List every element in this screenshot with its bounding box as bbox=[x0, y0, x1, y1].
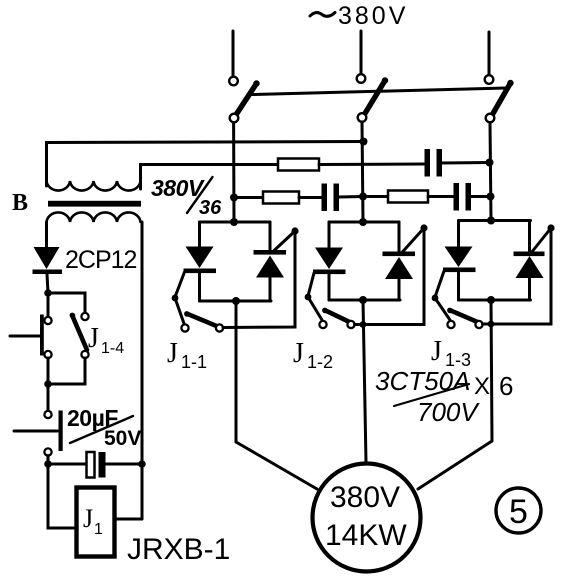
thyristor V5 (down) bbox=[443, 247, 476, 273]
contact J1-4 blade bbox=[72, 315, 87, 350]
svg-text:J: J bbox=[88, 323, 99, 354]
node merge junction bbox=[44, 380, 52, 388]
node pushbutton1 lower terminal bbox=[44, 351, 51, 358]
svg-text:5: 5 bbox=[509, 493, 528, 531]
resistor R1 bbox=[278, 159, 319, 171]
label 20uF/50V bbox=[67, 405, 141, 450]
wire row3 R2 to C2 bbox=[299, 196, 322, 199]
wire diode to branch bbox=[47, 274, 48, 293]
node pushbutton1 upper terminal bbox=[44, 317, 51, 324]
wire row3 C2 to phase2 bbox=[339, 195, 363, 199]
label J1 coil bbox=[83, 504, 103, 538]
capacitor C1 bbox=[425, 149, 443, 177]
svg-text:14KW: 14KW bbox=[325, 519, 407, 552]
wire module2 left top bbox=[328, 222, 331, 248]
wire module2 left bottom bbox=[328, 274, 331, 300]
thyristor V1 gate lead bbox=[175, 272, 185, 297]
wire phase3 vertical to module bbox=[490, 123, 491, 221]
wire module3 left bottom bbox=[457, 272, 460, 300]
label J1-3 bbox=[431, 336, 471, 370]
pushbutton SB2 stem bbox=[14, 430, 58, 433]
wire pushbutton1 branch bbox=[47, 293, 50, 317]
wire module3 bottom rail bbox=[459, 299, 531, 302]
wire branch to J1-4 contact bbox=[48, 293, 85, 312]
node pushbutton2 upper terminal bbox=[44, 411, 51, 418]
node module2 bottom junction bbox=[359, 296, 367, 304]
svg-text:380V: 380V bbox=[330, 481, 400, 514]
wire module2 right bottom bbox=[398, 279, 401, 300]
wire row3 C3 to phase3 bbox=[471, 195, 491, 198]
switch S2 blade bbox=[364, 81, 385, 116]
wire secondary right rail down bbox=[141, 222, 144, 519]
wire J1-3 to right gate rail bbox=[483, 228, 552, 324]
wire row2 R1 to C1 bbox=[319, 163, 424, 167]
svg-text:1: 1 bbox=[94, 521, 103, 538]
wire phase2 down to motor bbox=[363, 300, 366, 462]
svg-text:X: X bbox=[474, 373, 490, 400]
wire row3 phase2 to R3 bbox=[363, 195, 388, 198]
svg-text:1-4: 1-4 bbox=[101, 340, 124, 357]
capacitor C3 bbox=[454, 183, 472, 211]
wire phase1 vertical to module bbox=[232, 123, 235, 223]
svg-text:J: J bbox=[167, 338, 178, 369]
svg-text:700V: 700V bbox=[417, 397, 480, 427]
node V3 gate bend bbox=[305, 294, 312, 301]
node junction row3-phase2 bbox=[359, 193, 367, 201]
wire module1 top rail bbox=[200, 221, 271, 224]
wire phase 1 top stub bbox=[232, 31, 235, 76]
wire C4 to right rail bbox=[106, 463, 143, 466]
node J1-3 left terminal bbox=[447, 321, 454, 328]
node branch junction top bbox=[44, 289, 52, 297]
switch S3 blade bbox=[491, 83, 511, 117]
svg-text:1-1: 1-1 bbox=[181, 352, 207, 372]
wire pushbutton2 to cap node bbox=[47, 456, 50, 465]
contact J1-3 blade bbox=[450, 310, 478, 322]
svg-text:J: J bbox=[293, 338, 304, 369]
wire row2 from primary right terminal bbox=[141, 165, 279, 190]
resistor R3 bbox=[388, 191, 428, 203]
wire merge to pushbutton2 bbox=[47, 358, 50, 411]
label 3CT50A/700V x6 bbox=[375, 366, 513, 427]
wire secondary left to diode bbox=[45, 222, 48, 247]
wire gate bend to contact bbox=[435, 298, 450, 320]
wire module1 bottom rail bbox=[200, 300, 272, 303]
label ~380V supply bbox=[0, 0, 2, 2]
node junction row1-phase2 bbox=[360, 138, 368, 146]
wire phase1 diagonal to motor bbox=[236, 442, 317, 489]
node module1 top junction bbox=[230, 218, 238, 226]
node switch2 lower terminal bbox=[358, 113, 367, 122]
node junction gate line phase2 bbox=[360, 321, 367, 328]
wire right rail to coil bbox=[115, 518, 143, 521]
svg-text:J: J bbox=[83, 504, 93, 533]
svg-text:3CT50A: 3CT50A bbox=[375, 366, 470, 396]
node module3 bottom junction bbox=[487, 296, 495, 304]
node module2 top junction bbox=[359, 218, 367, 226]
node J1-4 lower terminal bbox=[81, 351, 88, 358]
node J1-2 left terminal bbox=[319, 321, 326, 328]
node junction gate line phase3 bbox=[488, 321, 495, 328]
transformer B core bbox=[48, 201, 141, 207]
pushbutton SB2 plate bbox=[59, 411, 63, 452]
node V2 gate corner bbox=[291, 227, 298, 234]
pushbutton SB1 plate bbox=[40, 315, 44, 356]
node phase3 top terminal bbox=[485, 75, 494, 84]
svg-text:B: B bbox=[12, 190, 28, 216]
wire phase1 down from module1 bbox=[235, 301, 238, 442]
node switch1 lower terminal bbox=[230, 114, 239, 123]
node J1-4 upper terminal bbox=[81, 313, 88, 320]
node J1-1 right terminal bbox=[216, 324, 223, 331]
node junction row3-phase1 bbox=[230, 194, 238, 202]
wire switch gang link line bbox=[252, 88, 506, 95]
svg-text:2CP12: 2CP12 bbox=[65, 246, 137, 274]
svg-text:J: J bbox=[431, 336, 442, 367]
thyristor V2 gate lead bbox=[273, 231, 296, 252]
motor M 380V 14KW bbox=[313, 464, 421, 572]
wire J1-1 to right gate rail bbox=[223, 231, 295, 328]
thyristor V4 (up) bbox=[383, 252, 416, 280]
wire to capacitor C4 bbox=[48, 463, 86, 466]
node pushbutton2 lower terminal bbox=[44, 448, 51, 455]
wire row3 R3 to C3 bbox=[428, 195, 454, 198]
wire module3 right top bbox=[528, 221, 531, 254]
wire module2 right top bbox=[398, 222, 401, 253]
svg-text:1-2: 1-2 bbox=[307, 352, 333, 372]
thyristor V3 gate lead bbox=[308, 273, 314, 296]
node phase2 top terminal bbox=[357, 74, 366, 83]
node junction row2-phase3 bbox=[486, 159, 494, 167]
node J1-1 left terminal bbox=[181, 324, 188, 331]
wire module2 top rail bbox=[329, 221, 399, 224]
node module1 bottom junction bbox=[232, 297, 240, 305]
thyristor V4 gate lead bbox=[402, 228, 425, 253]
wire gate bend to contact bbox=[175, 298, 184, 324]
thyristor V1 (down) bbox=[184, 247, 217, 274]
wire phase3 down from module3 bbox=[491, 300, 492, 441]
wire module3 right bottom bbox=[528, 278, 531, 300]
wire module2 bottom rail bbox=[329, 299, 400, 302]
thyristor V6 gate lead bbox=[531, 228, 551, 253]
node J1-2 right terminal bbox=[347, 321, 354, 328]
svg-text:JRXB-1: JRXB-1 bbox=[127, 533, 230, 566]
node module3 top junction bbox=[487, 217, 495, 225]
wire phase 3 top stub bbox=[488, 32, 491, 74]
wire row3 phase1 to R2 bbox=[234, 196, 263, 199]
thyristor V3 (down) bbox=[313, 248, 346, 275]
contact J1-1 blade bbox=[187, 314, 217, 327]
node junction row3-phase3 bbox=[487, 193, 495, 201]
transformer B primary winding bbox=[47, 181, 141, 191]
relay coil J1 box bbox=[77, 488, 115, 557]
svg-text:36: 36 bbox=[199, 197, 222, 219]
wire module1 right bottom bbox=[269, 278, 272, 302]
node V5 gate bend bbox=[432, 295, 439, 302]
label J1-2 bbox=[293, 338, 333, 372]
transformer B secondary winding bbox=[47, 212, 141, 222]
wire row2 C1 to phase3 bbox=[442, 161, 490, 165]
label J1-1 bbox=[167, 338, 207, 372]
wire left rail to coil bbox=[48, 464, 76, 528]
wire J1-2 to right gate rail bbox=[355, 228, 425, 325]
contact J1-2 blade bbox=[325, 310, 350, 322]
thyristor V5 gate lead bbox=[435, 271, 444, 297]
wire phase3 diagonal to motor bbox=[418, 441, 492, 489]
capacitor C4 electrolytic 20uF bbox=[87, 452, 95, 478]
thyristor V2 (up) bbox=[254, 250, 287, 278]
svg-text:380V: 380V bbox=[338, 2, 408, 30]
diode 2CP12 bbox=[33, 247, 63, 274]
node cap left junction bbox=[44, 460, 52, 468]
wire module1 left top bbox=[198, 222, 201, 247]
node switch3 lower terminal bbox=[486, 114, 495, 123]
figure number 5 bbox=[496, 488, 541, 533]
node V4 gate corner bbox=[420, 224, 427, 231]
wire gate bend to contact bbox=[308, 297, 322, 320]
node phase1 top terminal bbox=[229, 77, 238, 86]
wire row1 transformer primary to phase2 bbox=[47, 142, 365, 187]
wire module1 left bottom bbox=[198, 273, 201, 301]
pushbutton SB1 stem bbox=[10, 335, 40, 338]
wire J1-4 to merge bbox=[48, 358, 85, 384]
svg-text:6: 6 bbox=[499, 371, 513, 401]
node cap right junction bbox=[138, 460, 146, 468]
svg-text:50V: 50V bbox=[104, 427, 141, 450]
wire module1 right top bbox=[269, 222, 272, 252]
wire phase2 vertical to module bbox=[362, 122, 363, 222]
node V6 gate corner bbox=[547, 224, 554, 231]
capacitor C2 bbox=[322, 184, 340, 212]
node J1-3 right terminal bbox=[475, 321, 482, 328]
label J1-4 bbox=[88, 323, 124, 357]
node V1 gate bend bbox=[172, 295, 179, 302]
label 380V/36 bbox=[151, 175, 222, 219]
wire module3 left top bbox=[457, 221, 460, 248]
resistor R2 bbox=[263, 192, 299, 204]
thyristor V6 (up) bbox=[514, 252, 545, 279]
wire module3 top rail bbox=[459, 219, 531, 222]
switch S1 blade bbox=[236, 84, 257, 116]
wire phase 2 top stub bbox=[360, 31, 363, 73]
